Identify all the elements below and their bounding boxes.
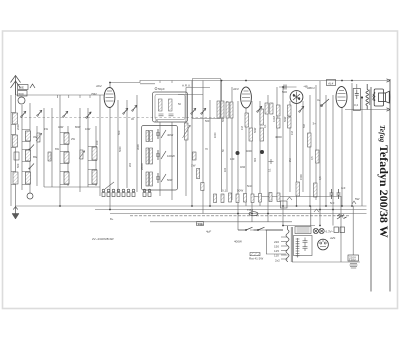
resistor R13 [316, 150, 320, 163]
trimmer cap 3 [156, 173, 166, 183]
svg-text:4μF: 4μF [206, 230, 211, 234]
resistor R10 [288, 105, 292, 116]
wire v10 [87, 108, 89, 187]
svg-text:0,1: 0,1 [263, 124, 267, 128]
wire v4 [36, 126, 38, 186]
v mark right [352, 201, 356, 204]
if coil pair 3 [146, 172, 153, 186]
can2 caps [159, 114, 174, 116]
wire v41 [341, 108, 343, 207]
svg-text:100W: 100W [167, 154, 175, 158]
wire v42 [351, 83, 353, 206]
title strip left line [370, 87, 372, 292]
svg-text:8W: 8W [33, 155, 37, 159]
osc coil B [169, 99, 173, 111]
svg-text:AZ1: AZ1 [329, 236, 336, 240]
electrolytic dot 2 [260, 150, 264, 154]
svg-text:10E: 10E [19, 86, 24, 90]
switch S5 [299, 106, 304, 112]
rectifier tube AZ1 [318, 239, 329, 250]
left edge links [11, 113, 16, 185]
if coil pair 4 [265, 103, 273, 114]
wire v6 [51, 108, 53, 187]
can2 inner outline [155, 95, 185, 120]
resistor R5 [249, 128, 253, 141]
tiny value labels mid [205, 116, 346, 205]
svg-text:6,3V~: 6,3V~ [326, 230, 334, 234]
v mark power [339, 215, 343, 218]
svg-text:40W: 40W [240, 166, 246, 169]
tube AL4 [336, 87, 347, 108]
svg-text:2000: 2000 [140, 163, 144, 170]
svg-text:50W: 50W [283, 116, 287, 122]
wire v27 [245, 108, 247, 206]
resistor R14 [296, 182, 300, 196]
svg-text:AL4: AL4 [327, 81, 334, 85]
wire v36 [309, 95, 311, 206]
svg-text:4W: 4W [33, 135, 37, 139]
resistor R8 [277, 105, 281, 116]
wire v20 [191, 81, 193, 207]
svg-text:5W: 5W [355, 197, 360, 201]
pilot lamp 2 [319, 228, 324, 233]
filter capacitors [303, 238, 308, 252]
bus line 1 [16, 205, 367, 207]
left edge coil c [13, 172, 18, 184]
wire v33 [289, 101, 291, 192]
resistor arrow a [36, 133, 42, 141]
svg-text:5nF: 5nF [247, 184, 252, 188]
tube AF3 [241, 87, 252, 108]
tube AK2 [104, 88, 115, 108]
switch S6 [321, 99, 330, 107]
voltage taps [281, 237, 288, 259]
svg-text:110: 110 [274, 254, 279, 258]
wire v5 [43, 108, 45, 187]
svg-text:4000: 4000 [246, 149, 252, 153]
svg-text:1nF: 1nF [341, 186, 346, 190]
block1 mini contact a [29, 145, 34, 151]
resistor R6 [260, 109, 264, 125]
left edge box d [14, 152, 19, 160]
wire v15 [126, 100, 128, 188]
transformer secondary HT winding [296, 238, 300, 258]
left edge coil a [13, 113, 18, 124]
resistor upper Rb [201, 183, 204, 191]
left edge wire [10, 95, 12, 206]
bus dash line [130, 215, 350, 217]
switch S2a [123, 108, 128, 114]
transformer secondary heater winding box [295, 227, 311, 234]
resistor row R26 [259, 194, 262, 203]
label 50pF [155, 87, 165, 91]
wire v12 [99, 95, 101, 196]
wire pickup resistor [266, 253, 286, 255]
resistor row R20 [214, 194, 217, 203]
resistor R4 [245, 113, 249, 127]
output tone capacitor box [353, 89, 360, 111]
wire top main [110, 81, 388, 83]
resistor R9 [277, 118, 281, 128]
wire v45 power right [340, 196, 342, 262]
left edge coil b [13, 135, 18, 147]
svg-text:400W: 400W [234, 240, 242, 244]
v mark bus b [287, 197, 292, 200]
block1 bottom line [44, 186, 100, 188]
switch S3a [191, 108, 196, 114]
wire v37 [315, 85, 317, 200]
wire v29 [259, 101, 261, 206]
junction dots mid [109, 80, 353, 227]
wire v35 [302, 101, 304, 192]
padder box [193, 152, 197, 160]
heater resistor box 1 [334, 227, 339, 233]
tone switch [337, 214, 347, 219]
coil L5 [64, 152, 69, 163]
svg-text:3+: 3+ [313, 122, 317, 126]
switch S2b [132, 105, 137, 111]
bus line tfbd [150, 221, 292, 223]
svg-text:500: 500 [205, 119, 210, 123]
svg-text:8+: 8+ [110, 217, 114, 221]
svg-text:0,3M: 0,3M [272, 116, 276, 122]
resistor arrow b [79, 151, 85, 159]
resistor R12 [308, 133, 312, 147]
svg-text:40W: 40W [58, 125, 64, 129]
wafer switch row [102, 189, 151, 196]
svg-text:50pF: 50pF [158, 87, 165, 91]
svg-text:0,2: 0,2 [354, 103, 359, 107]
output transformer core [369, 90, 371, 106]
svg-text:500: 500 [19, 92, 24, 96]
wire v36 ext [310, 206, 312, 226]
cap on abc1 feed [284, 85, 286, 90]
coil L1 [26, 131, 31, 141]
svg-text:150: 150 [274, 245, 279, 249]
resistor R15 [314, 183, 318, 197]
wire power top line [253, 196, 341, 198]
switch S4 [257, 106, 262, 112]
wire v18 [171, 122, 173, 200]
svg-text:TF.Bd: TF.Bd [196, 223, 204, 227]
band switch link dashed [20, 117, 215, 119]
svg-text:6W: 6W [55, 147, 59, 151]
svg-text:110V: 110V [349, 258, 356, 262]
svg-text:2x2: 2x2 [275, 259, 280, 263]
resistor R7 [260, 128, 264, 141]
speaker [373, 89, 390, 106]
coil 500 block3 b [226, 102, 233, 118]
svg-text:1W: 1W [44, 127, 48, 131]
svg-text:80W: 80W [75, 125, 81, 129]
svg-text:500: 500 [117, 130, 121, 135]
shield can lower [142, 126, 178, 191]
wire switch to pot [266, 230, 268, 254]
switch S1a [21, 111, 26, 117]
resistor R2 [48, 152, 51, 161]
svg-text:AK2: AK2 [95, 84, 102, 88]
transformer core [291, 227, 292, 262]
junction dots bus [59, 205, 353, 214]
if coil pair 1 [146, 131, 153, 142]
cap C21 [337, 189, 341, 199]
svg-text:200: 200 [129, 162, 132, 167]
svg-text:300: 300 [254, 157, 257, 162]
svg-text:3+: 3+ [317, 98, 321, 102]
svg-text:3000: 3000 [136, 144, 140, 150]
svg-text:0,1: 0,1 [222, 189, 227, 193]
svg-text:1500: 1500 [299, 174, 303, 180]
wire v14 [117, 100, 119, 192]
wire v19 [185, 88, 187, 197]
svg-text:2000: 2000 [16, 124, 20, 130]
wire v17 [159, 122, 161, 196]
resistor row R22 [229, 193, 232, 202]
antenna coil circle [18, 97, 25, 104]
coil 500 block3 a [217, 101, 224, 118]
wire 7m2 stub [178, 94, 203, 96]
tiny value labels block2 [117, 102, 181, 182]
right terminal arrow top [387, 79, 391, 82]
wire v22 [209, 100, 211, 206]
wire speaker bottom [345, 109, 388, 111]
svg-text:220: 220 [274, 240, 279, 244]
wire v28 [251, 101, 253, 222]
svg-text:50W: 50W [253, 127, 257, 133]
resistor row R23 [236, 194, 239, 203]
wire v9 [79, 108, 81, 192]
coil L8 [92, 170, 97, 184]
wire left top [16, 94, 104, 96]
wire v13 [109, 83, 111, 210]
wire v8 [67, 126, 69, 186]
shield can upper [153, 92, 188, 122]
svg-text:1M: 1M [240, 126, 244, 130]
v mark bus a [314, 209, 319, 212]
wire abc1 feed [279, 86, 297, 88]
oscillator can outline [193, 79, 221, 119]
power transformer primary coil [286, 226, 289, 262]
fuse block [348, 255, 359, 268]
svg-text:AF3: AF3 [232, 87, 239, 91]
svg-text:5M: 5M [302, 124, 306, 128]
junction dot speaker [361, 96, 363, 98]
wire power bottom [292, 261, 360, 263]
wire v25 [231, 87, 233, 200]
svg-text:0,5: 0,5 [310, 156, 314, 160]
label box AL4 [327, 80, 336, 86]
svg-text:1M: 1M [290, 131, 294, 135]
resistor row R25 [251, 194, 254, 203]
resistor R3 [80, 150, 83, 159]
tube ABC1 [290, 91, 303, 104]
wire v44 [361, 98, 363, 207]
svg-text:40W: 40W [167, 133, 173, 137]
svg-text:100: 100 [95, 140, 99, 145]
terminal circle block1 [27, 193, 33, 199]
svg-text:4000: 4000 [275, 135, 282, 139]
switch S1c [63, 111, 68, 117]
tiny marks top [58, 81, 173, 99]
switch S1d [86, 112, 91, 118]
cap C20 [330, 189, 334, 199]
wire v2 [21, 105, 23, 190]
wire v32 [282, 87, 284, 226]
bus line 2 [95, 209, 367, 211]
resistor upper Ra [197, 169, 200, 179]
resistor R11 [288, 117, 292, 128]
wire v46 power right [352, 206, 354, 255]
heater resistor box 2 [340, 227, 345, 233]
tiny value labels block1 [16, 124, 99, 168]
svg-text:2M: 2M [289, 159, 292, 162]
output transformer secondary [373, 92, 375, 101]
svg-text:1000: 1000 [214, 132, 217, 138]
svg-text:5nF: 5nF [330, 201, 335, 205]
wire mains switch [250, 229, 283, 231]
svg-text:125: 125 [274, 249, 279, 253]
small box left of transformer [281, 201, 288, 208]
title strip right line [389, 79, 391, 292]
coil L3 [26, 172, 31, 184]
coil L2 [26, 150, 31, 161]
svg-text:500: 500 [282, 90, 287, 94]
block1 mini contact b [29, 164, 34, 170]
block1 inner links [22, 130, 97, 185]
wire v38 [319, 81, 321, 226]
wire v16 [136, 95, 138, 192]
svg-text:-4B: -4B [303, 85, 308, 89]
switch S1b [37, 110, 42, 116]
pilot lamp 1 [313, 228, 318, 233]
resistor row R27 [269, 193, 272, 202]
oval on bus [249, 212, 258, 216]
svg-text:100: 100 [224, 167, 227, 172]
if coil pair 2 [146, 148, 153, 164]
wire v30 [267, 95, 269, 222]
svg-text:1W: 1W [191, 164, 196, 168]
resistor row R21 [221, 194, 224, 203]
resistor R1 [37, 133, 40, 142]
wire v39 [325, 95, 327, 206]
svg-text:5000: 5000 [119, 146, 122, 152]
electrolytic dot 1 [236, 151, 240, 155]
wire power top [283, 225, 315, 227]
wire v43 [356, 84, 358, 89]
svg-text:2V~4/40/6/8/4W: 2V~4/40/6/8/4W [92, 237, 114, 241]
svg-text:10W: 10W [85, 127, 91, 131]
coil L6 [64, 172, 69, 184]
wire stub y84 [140, 83, 155, 85]
v mark [30, 84, 35, 88]
secondary box [294, 236, 313, 256]
antenna coupling box 10E [18, 85, 29, 97]
resistor row R28 [277, 193, 280, 202]
svg-text:Tefadyn 200/38 W: Tefadyn 200/38 W [377, 145, 391, 238]
ground [12, 206, 19, 219]
svg-text:7M2: 7M2 [91, 92, 97, 96]
output transformer primary [366, 84, 369, 110]
svg-text:Rat 41 5W: Rat 41 5W [249, 257, 263, 261]
svg-text:A.R.U.: A.R.U. [182, 84, 191, 88]
wire v3 [29, 103, 31, 193]
plus mark [269, 159, 274, 164]
osc coil A [159, 99, 163, 111]
switch S3b [201, 108, 206, 114]
resistor row R24 [244, 194, 247, 203]
wire v21 [202, 81, 204, 214]
svg-text:50W: 50W [237, 189, 243, 193]
trimmer cap 1 [156, 129, 166, 139]
wire aru stub [186, 87, 210, 89]
volume resistor mid [183, 123, 191, 140]
bus line 3 [110, 213, 367, 215]
wire v7 [59, 95, 61, 206]
coil L4 [64, 133, 69, 144]
wire v26 [237, 101, 239, 230]
wire v40 [332, 95, 334, 226]
svg-text:2W: 2W [71, 137, 75, 141]
wire v34 [296, 104, 298, 207]
wire v24 [226, 101, 228, 192]
svg-text:0,5: 0,5 [318, 176, 322, 180]
coil L7 [92, 147, 97, 160]
wire v23 [221, 81, 223, 193]
svg-text:100: 100 [230, 157, 235, 161]
right terminal arrow bottom [387, 108, 391, 111]
wire v31 [276, 87, 278, 200]
svg-text:50W: 50W [167, 178, 173, 182]
antenna [11, 76, 21, 96]
trimmer cap 2 [156, 150, 166, 160]
mains switch [238, 227, 283, 231]
svg-text:500: 500 [221, 117, 225, 122]
wire v1 [15, 80, 17, 206]
svg-text:500: 500 [16, 163, 20, 168]
diag wire wafer [105, 182, 114, 189]
wire v11 [95, 126, 97, 186]
extra tiny labels midband [119, 132, 292, 172]
svg-text:Tefag: Tefag [378, 125, 387, 142]
svg-text:0,1: 0,1 [269, 168, 272, 172]
volume resistor [250, 253, 260, 256]
label 100 box [197, 222, 204, 226]
